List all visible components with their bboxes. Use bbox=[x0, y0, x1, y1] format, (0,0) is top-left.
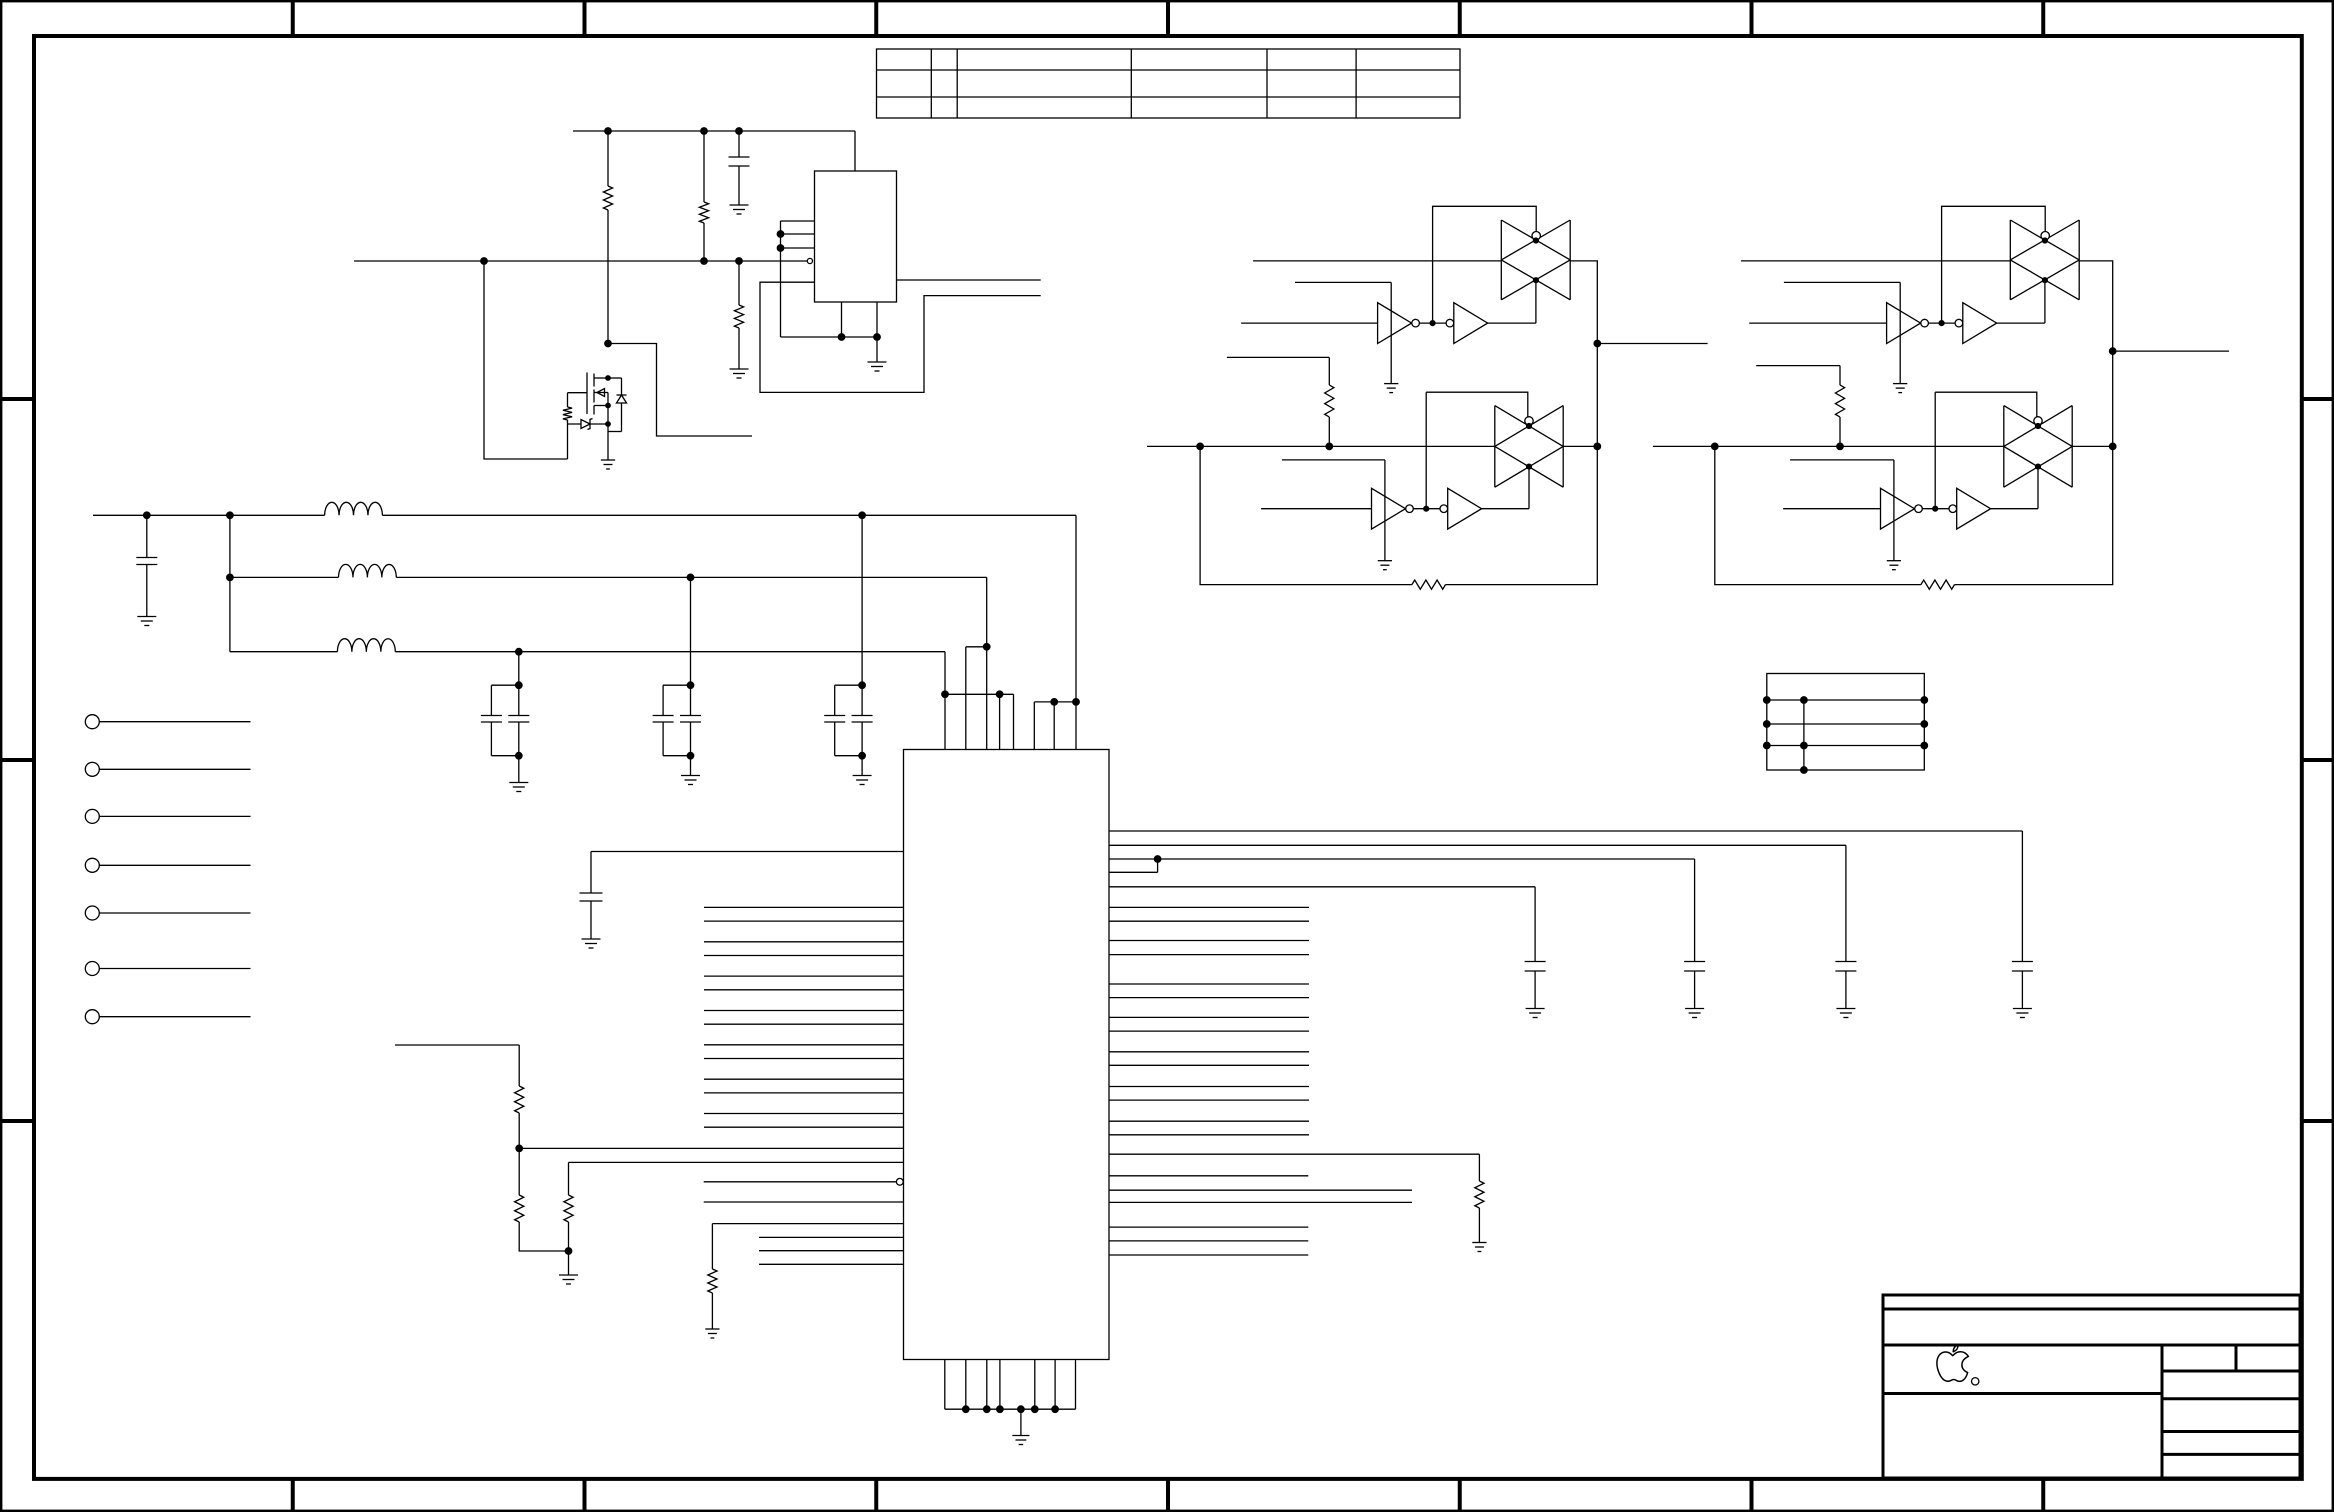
Apple logo bbox=[1937, 1345, 1968, 1381]
wire U4a input bbox=[1741, 260, 2010, 262]
wire phase B bbox=[230, 576, 987, 578]
wire U1 VCC pin bbox=[854, 131, 856, 171]
connector J1 pin 2 bbox=[85, 762, 250, 776]
inductor L3 bbox=[337, 639, 395, 652]
junction dot hysteresis tap bbox=[1199, 445, 1201, 447]
wire U4e input bbox=[1783, 508, 1880, 510]
U1 inverting input bubble bbox=[807, 258, 812, 263]
wire phase C bbox=[230, 651, 945, 653]
wire Q1 source bbox=[607, 393, 609, 461]
resistor R7 bbox=[564, 1162, 573, 1251]
ground for U3b bbox=[1384, 384, 1398, 393]
wire U3c output bbox=[1488, 280, 1536, 323]
wire U3b to U3c bbox=[1419, 322, 1446, 324]
junction dot phase bus bbox=[227, 574, 234, 581]
junction dot U3e node bbox=[1424, 506, 1429, 511]
junction dots U4d control bbox=[2035, 423, 2040, 469]
junction dots U3d control bbox=[1526, 423, 1531, 469]
IC U1 body bbox=[815, 171, 897, 302]
inverter U3e bbox=[1372, 488, 1406, 529]
U4f input bubble bbox=[1949, 505, 1957, 513]
wire VCC rail bbox=[573, 130, 855, 132]
junction dots phase A bbox=[143, 512, 865, 519]
junction dot divider ground node bbox=[565, 1248, 572, 1255]
resistor R9 bbox=[1475, 1181, 1484, 1243]
junction dots lower main bbox=[1711, 443, 2116, 450]
ground for C2 bbox=[137, 617, 156, 626]
junction dots U1 bottom bbox=[838, 334, 880, 341]
capacitor C6 bypass bbox=[580, 893, 603, 939]
junction dots on gate-drive net bbox=[481, 258, 743, 265]
resistor R5 bbox=[515, 1086, 524, 1195]
connector J1 pin 4 bbox=[85, 858, 250, 872]
junction dot inverter node bbox=[1430, 321, 1435, 326]
ground for C8 bbox=[1685, 1009, 1704, 1018]
wire U2 feedback pin bbox=[1109, 1154, 1479, 1181]
wire U3a input bbox=[1253, 260, 1501, 262]
junction dots U4a control bbox=[2042, 238, 2047, 283]
ground for divider bbox=[559, 1275, 578, 1284]
ground for cap pair 3 bbox=[509, 783, 528, 792]
wire block output stub bbox=[1597, 343, 1707, 345]
title block bbox=[1883, 1295, 2300, 1478]
wire U2 aux pins bbox=[759, 1237, 904, 1264]
connector J1 pin 6 bbox=[85, 962, 250, 976]
resistor pull bbox=[1325, 385, 1334, 446]
wire phase A bbox=[93, 514, 1076, 516]
wire drain to stub bbox=[608, 344, 752, 437]
analog switch U4d bbox=[2004, 406, 2072, 488]
wire U4b gnd drop bbox=[1784, 282, 1900, 383]
U3a control bubble bbox=[1532, 232, 1540, 240]
wire U4b to U4c bbox=[1928, 322, 1955, 324]
junction dot U4e node bbox=[1933, 506, 1938, 511]
wire U3e gnd drop bbox=[1282, 460, 1385, 561]
wire U3e input bbox=[1261, 508, 1371, 510]
wire U2 out1 bbox=[1109, 831, 2022, 962]
wire U4d loop drop bbox=[1934, 392, 1936, 509]
diode D1 body diode bbox=[608, 378, 627, 432]
junction dots cap pair 5 bbox=[859, 682, 866, 759]
wire gate-drive net bbox=[354, 260, 807, 262]
ground for cap pair 5 bbox=[853, 776, 872, 785]
wire pull input bbox=[1227, 357, 1329, 385]
ground for C7 bbox=[1526, 1009, 1545, 1018]
junction dots U1 left pins bbox=[777, 231, 784, 252]
wire phase C to U2 pins bbox=[945, 652, 1014, 750]
U3b output bubble bbox=[1412, 319, 1420, 327]
analog switch U3d bbox=[1495, 406, 1563, 488]
resistor R6 bbox=[515, 1195, 569, 1251]
buffer U4f bbox=[1957, 488, 1991, 529]
ground for U4e bbox=[1887, 561, 1901, 570]
wire U1 output pin bbox=[897, 279, 1041, 281]
capacitor C10 bbox=[2012, 962, 2033, 1009]
junction dot out3 bbox=[1154, 856, 1161, 863]
IC U2 body bbox=[904, 750, 1110, 1360]
resistor hysteresis bbox=[1921, 580, 1955, 589]
wire U2 sense pin A bbox=[519, 1147, 903, 1149]
junction dot block output bbox=[1594, 340, 1601, 347]
ground for cap pair 4 bbox=[681, 776, 700, 785]
buffer U4c bbox=[1963, 303, 1997, 344]
resistor R3 bbox=[734, 261, 743, 369]
ground for C1 bbox=[730, 205, 749, 214]
junction dots lower main bbox=[1197, 443, 1601, 450]
wire U4d feedback loop bbox=[1935, 392, 2037, 417]
wire hysteresis loop bbox=[1715, 446, 2113, 584]
registered trademark circle bbox=[1972, 1378, 1979, 1385]
wire U3a feedback loop bbox=[1433, 206, 1537, 323]
wire U2 left data pins bbox=[704, 907, 904, 1127]
inverter U4b bbox=[1887, 303, 1921, 344]
connector J1 pin 7 bbox=[85, 1010, 250, 1024]
capacitor C7 bbox=[1525, 962, 1546, 1009]
wire U2 out3 bbox=[1109, 859, 1695, 962]
wire U3a output bbox=[1570, 261, 1597, 447]
wire U2 out4 bbox=[1109, 887, 1535, 962]
wire U2 ground tap bbox=[1020, 1409, 1022, 1435]
ground for C9 bbox=[1836, 1009, 1855, 1018]
wire U2 right long pins bbox=[1109, 1190, 1412, 1202]
resistor R2 bbox=[699, 131, 708, 261]
wire U2 adj pin bbox=[712, 1224, 903, 1269]
analog switch U3a bbox=[1501, 220, 1570, 300]
U4e output bubble bbox=[1915, 505, 1923, 513]
U3d control bubble bbox=[1525, 417, 1533, 425]
wire U3d loop drop bbox=[1425, 392, 1427, 509]
wire lower main net bbox=[1653, 445, 2113, 447]
wire U4b input bbox=[1749, 322, 1886, 324]
junction dot block output bbox=[2109, 348, 2116, 355]
analog switch U4a bbox=[2010, 220, 2079, 300]
wire pull input bbox=[1756, 366, 1840, 385]
buffer U3f bbox=[1448, 488, 1482, 529]
junction dots U3a control bbox=[1533, 238, 1538, 283]
wire U2 VDD pin bbox=[591, 852, 904, 894]
wire divider input bbox=[395, 1045, 519, 1086]
wire U1 left pins bbox=[781, 221, 815, 337]
wire U1 feedback loop bbox=[760, 282, 1041, 392]
U4a control bubble bbox=[2041, 232, 2049, 240]
ground for U3e bbox=[1378, 561, 1392, 570]
inverter U3b bbox=[1378, 303, 1412, 344]
junction dots phase C pins bbox=[942, 691, 1003, 698]
revision table bbox=[877, 49, 1461, 118]
ground for C10 bbox=[2013, 1009, 2032, 1018]
junction dots cap pair 3 bbox=[515, 682, 522, 759]
U4b output bubble bbox=[1921, 319, 1929, 327]
ground for U2 bbox=[1012, 1436, 1029, 1445]
wire gate drive route bbox=[484, 261, 568, 459]
ground for Q1 source bbox=[601, 460, 615, 469]
ground for R8 bbox=[705, 1329, 719, 1338]
ground for R9 bbox=[1472, 1243, 1486, 1252]
U3e output bubble bbox=[1406, 505, 1414, 513]
wire U3e to U3f bbox=[1413, 508, 1440, 510]
wire block output stub bbox=[2113, 350, 2229, 352]
wire U2 enable pin bbox=[704, 1181, 897, 1183]
junction dot inverter node bbox=[1939, 321, 1944, 326]
junction dot phase B pin bbox=[983, 643, 990, 650]
wire U3d feedback loop bbox=[1426, 392, 1528, 417]
capacitor C9 bbox=[1835, 962, 1856, 1009]
resistor pull bbox=[1835, 385, 1844, 446]
ground for C6 bbox=[582, 939, 601, 948]
wire hysteresis loop bbox=[1200, 446, 1597, 584]
wire U2 right data pins bbox=[1109, 907, 1309, 1134]
capacitor C2 input bbox=[136, 515, 157, 616]
junction dot phase C bbox=[515, 648, 522, 655]
wire U2 out3b bbox=[1109, 859, 1158, 872]
junction dots ladder bbox=[1763, 697, 1927, 774]
U2 enable bubble bbox=[896, 1178, 903, 1185]
junction dot hysteresis tap bbox=[1714, 445, 1716, 447]
wire U2 ground pins bbox=[945, 1360, 1076, 1410]
U3f input bubble bbox=[1440, 505, 1448, 513]
inverter U4e bbox=[1881, 488, 1915, 529]
junction dot phase B bbox=[687, 574, 694, 581]
junction dot divider node bbox=[516, 1145, 523, 1152]
wire divider ground stub bbox=[568, 1251, 570, 1275]
capacitor C1 bbox=[729, 131, 750, 205]
wire U1 bottom pins bbox=[781, 302, 878, 337]
transistor Q1 MOSFET bbox=[568, 373, 609, 415]
junction dots on VCC rail bbox=[605, 128, 743, 135]
wire U3b input bbox=[1241, 322, 1378, 324]
ground for R3 bbox=[730, 369, 749, 378]
U4d control bubble bbox=[2034, 417, 2042, 425]
wire U4a feedback loop bbox=[1942, 206, 2046, 323]
junction dots cap pair 4 bbox=[687, 682, 694, 759]
capacitor C8 bbox=[1684, 962, 1705, 1009]
wire U4a output bbox=[2079, 261, 2113, 447]
U3c input bubble bbox=[1446, 319, 1454, 327]
diode D2 zener gate clamp bbox=[568, 419, 609, 430]
wire U2 mode pin bbox=[704, 1201, 904, 1203]
connector J1 pin 3 bbox=[85, 809, 250, 823]
wire U4c output bbox=[1997, 280, 2045, 323]
wire U2 sense pin B bbox=[569, 1161, 904, 1163]
U4c input bubble bbox=[1955, 319, 1963, 327]
ground for U1 bbox=[868, 362, 887, 371]
inductor L2 bbox=[339, 564, 397, 577]
connector J1 pin 5 bbox=[85, 906, 250, 920]
capacitor pair C4a C4b bbox=[653, 577, 701, 775]
resistor hysteresis bbox=[1412, 580, 1446, 589]
wire phase bus vertical bbox=[229, 515, 231, 651]
net-tie ladder W1 bbox=[1767, 674, 1925, 771]
wire phase A to U2 pins bbox=[1034, 515, 1076, 749]
capacitor pair C5a C5b bbox=[824, 515, 872, 775]
wire phase B to U2 pins bbox=[966, 577, 987, 749]
wire U2 out2 bbox=[1109, 845, 1846, 961]
wire U4f output bbox=[1991, 467, 2038, 509]
wire U4e gnd drop bbox=[1790, 460, 1894, 561]
wire U3f output bbox=[1482, 467, 1529, 509]
junction dot drain node bbox=[605, 340, 612, 347]
junction dots U2 ground bar bbox=[962, 1406, 1058, 1413]
buffer U3c bbox=[1454, 303, 1488, 344]
resistor R8 bbox=[708, 1269, 717, 1329]
capacitor pair C3a C3b bbox=[481, 652, 529, 783]
wire lower main net bbox=[1147, 445, 1597, 447]
ground for U4b bbox=[1893, 384, 1907, 393]
wire U2 right aux pins bbox=[1109, 1176, 1308, 1255]
connector J1 pin 1 bbox=[85, 715, 250, 729]
inductor L1 bbox=[325, 502, 383, 515]
wire U3b gnd drop bbox=[1295, 282, 1391, 383]
junction dots Q1 bbox=[606, 376, 611, 427]
junction dots phase A pins bbox=[1051, 699, 1080, 706]
resistor R1 bbox=[603, 131, 612, 344]
resistor R4 gate pulldown bbox=[563, 393, 572, 459]
wire U4e to U4f bbox=[1922, 508, 1949, 510]
wire U1 ground stub bbox=[876, 337, 878, 362]
